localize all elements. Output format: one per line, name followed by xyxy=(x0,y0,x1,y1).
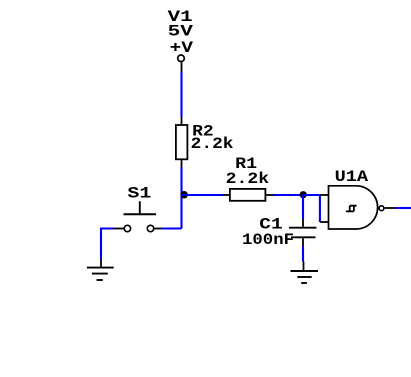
ground left line 1 xyxy=(87,267,114,269)
junction node A xyxy=(181,191,188,198)
pin S1 right xyxy=(154,228,162,230)
ground pin left xyxy=(100,259,102,267)
pin C1 bottom xyxy=(302,238,304,246)
nand gate U1A body xyxy=(329,186,378,229)
wire node A to R1 xyxy=(182,194,223,196)
pin from +V terminal xyxy=(181,62,183,72)
wire U1A output xyxy=(396,207,411,209)
wire node B down to C1 xyxy=(302,195,304,219)
output bubble of U1A xyxy=(379,206,384,211)
svg-text:2.2k: 2.2k xyxy=(191,135,234,153)
terminal +V V1 xyxy=(178,55,185,62)
switch S1 actuator bar xyxy=(124,213,157,215)
svg-text:U1A: U1A xyxy=(335,168,369,186)
switch S1 left contact xyxy=(124,225,130,231)
ground right line 1 xyxy=(291,270,319,272)
capacitor C1 plate top xyxy=(289,227,317,229)
pin R1 right xyxy=(265,194,273,196)
svg-text:2.2k: 2.2k xyxy=(226,170,269,188)
switch S1 right contact xyxy=(147,225,153,231)
pin R1 left xyxy=(223,194,230,196)
svg-text:100nF: 100nF xyxy=(242,231,294,249)
wire S1 left to ground xyxy=(101,229,114,260)
ground right line 3 xyxy=(301,282,307,284)
wire C1 to ground xyxy=(302,246,304,262)
pin U1A output xyxy=(385,207,396,209)
resistor R2 xyxy=(176,125,188,159)
wire R1 to node B xyxy=(274,194,304,196)
ground left line 2 xyxy=(92,273,108,275)
pin R2 bottom xyxy=(181,160,183,167)
ground left line 3 xyxy=(97,279,103,281)
pin R2 top xyxy=(181,117,183,125)
svg-text:S1: S1 xyxy=(127,184,151,202)
svg-text:5V: 5V xyxy=(168,23,194,41)
pin U1A input 1 xyxy=(320,194,329,196)
ground pin right xyxy=(303,262,305,271)
pin C1 top xyxy=(302,219,304,227)
pin U1A input 2 xyxy=(320,221,329,223)
wire node B to gate inputs xyxy=(303,195,320,222)
wire +V to R2 xyxy=(180,72,182,117)
pin S1 left xyxy=(114,228,125,230)
wire R2 to node A and down to switch level xyxy=(180,167,182,229)
wire S1 right to node A xyxy=(162,227,182,229)
ground right line 2 xyxy=(297,276,311,278)
schmitt trigger symbol inside U1A xyxy=(346,206,357,212)
switch S1 actuator stem xyxy=(139,201,141,214)
capacitor C1 plate bottom xyxy=(291,236,316,238)
junction node B xyxy=(300,191,307,198)
resistor R1 xyxy=(230,189,266,201)
